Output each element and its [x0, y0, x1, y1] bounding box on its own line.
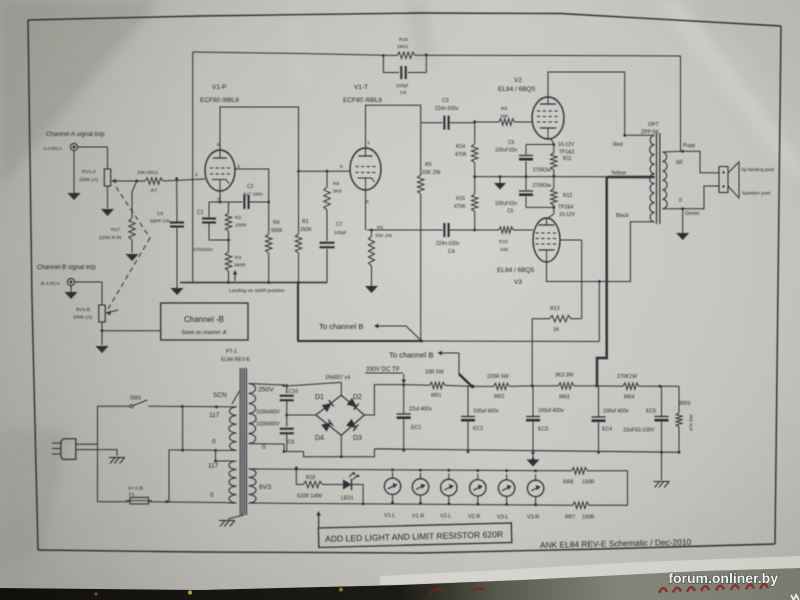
svg-text:EL84 / 6BQ5: EL84 / 6BQ5	[498, 86, 536, 93]
svg-text:PT-1: PT-1	[226, 349, 237, 355]
svg-text:R18: R18	[306, 475, 315, 481]
svg-text:0: 0	[679, 198, 682, 204]
svg-text:Yellow: Yellow	[611, 171, 626, 177]
svg-text:V2-L: V2-L	[440, 514, 451, 520]
svg-text:C2: C2	[247, 184, 254, 190]
svg-text:RR7: RR7	[565, 515, 575, 521]
svg-text:100R: 100R	[235, 223, 247, 229]
svg-text:6R: 6R	[676, 160, 683, 166]
svg-text:100pf: 100pf	[334, 230, 347, 236]
svg-text:C8: C8	[400, 90, 406, 96]
svg-text:C6: C6	[508, 140, 515, 146]
svg-text:117: 117	[209, 412, 220, 419]
svg-text:470K: 470K	[454, 204, 466, 210]
svg-text:0: 0	[210, 492, 214, 499]
svg-text:D3: D3	[353, 435, 362, 442]
svg-text:270R3w: 270R3w	[533, 183, 552, 189]
svg-text:560K: 560K	[271, 228, 283, 234]
svg-text:D1: D1	[315, 394, 324, 401]
svg-text:330V DC TP: 330V DC TP	[366, 367, 400, 373]
svg-text:EC2: EC2	[473, 426, 483, 432]
svg-text:224n 630v: 224n 630v	[436, 241, 460, 247]
svg-text:100uf 63v: 100uf 63v	[495, 201, 517, 207]
svg-text:V1-T: V1-T	[354, 84, 368, 91]
svg-text:100uf 400v: 100uf 400v	[538, 408, 564, 414]
svg-text:103N400V: 103N400V	[256, 410, 280, 416]
svg-text:Sp binding post: Sp binding post	[741, 167, 775, 173]
svg-text:To channel B: To channel B	[389, 351, 433, 360]
svg-text:270K1W: 270K1W	[617, 374, 637, 380]
svg-text:470K: 470K	[455, 152, 467, 158]
svg-text:B-J-RCA: B-J-RCA	[41, 281, 61, 287]
svg-text:2A S.B.: 2A S.B.	[128, 486, 144, 492]
svg-text:Channel-A signal in/p: Channel-A signal in/p	[46, 131, 105, 138]
svg-text:Red: Red	[613, 142, 623, 148]
svg-text:RR2: RR2	[494, 394, 504, 400]
svg-text:EC3: EC3	[538, 427, 548, 433]
svg-text:R13: R13	[550, 306, 560, 312]
svg-text:Landing on 100R position: Landing on 100R position	[229, 288, 285, 294]
svg-text:R15: R15	[456, 196, 465, 202]
svg-text:100R: 100R	[582, 515, 595, 521]
svg-text:224n 630v: 224n 630v	[435, 106, 459, 112]
svg-text:RR8: RR8	[563, 480, 573, 486]
svg-text:V3-L: V3-L	[497, 514, 508, 520]
svg-text:C5: C5	[507, 209, 514, 215]
svg-text:9: 9	[340, 164, 343, 170]
svg-text:EC1: EC1	[411, 425, 421, 431]
svg-text:R9: R9	[501, 106, 507, 112]
svg-text:RR1: RR1	[431, 393, 441, 399]
svg-text:V3: V3	[514, 279, 522, 286]
svg-text:8: 8	[366, 199, 369, 205]
svg-text:D4: D4	[315, 435, 324, 442]
svg-text:To channel B: To channel B	[319, 322, 363, 331]
svg-text:2: 2	[195, 172, 198, 178]
svg-text:Speaker post: Speaker post	[742, 191, 771, 197]
svg-text:R17: R17	[111, 227, 120, 233]
svg-text:Black: Black	[616, 213, 629, 219]
svg-text:Channel -B: Channel -B	[184, 315, 224, 324]
svg-text:R7: R7	[151, 188, 157, 194]
svg-text:V2-R: V2-R	[468, 514, 480, 520]
svg-text:220K R-IN: 220K R-IN	[99, 235, 122, 241]
svg-text:C9: C9	[288, 440, 295, 446]
svg-text:C9: C9	[157, 211, 163, 217]
svg-text:R16: R16	[399, 37, 408, 43]
svg-text:16K2: 16K2	[397, 44, 409, 50]
svg-text:390R: 390R	[234, 263, 246, 269]
svg-text:250V: 250V	[258, 387, 274, 394]
svg-text:OPT: OPT	[648, 122, 659, 128]
svg-text:TP1&3: TP1&3	[559, 150, 575, 156]
svg-text:270R3w: 270R3w	[533, 168, 552, 174]
svg-text:RRS: RRS	[680, 401, 691, 407]
svg-text:ECF80 /6BL8: ECF80 /6BL8	[200, 97, 239, 104]
svg-text:R11: R11	[563, 156, 572, 162]
svg-text:R1: R1	[302, 219, 309, 225]
svg-text:EC5: EC5	[646, 409, 656, 415]
svg-text:R8: R8	[333, 181, 339, 187]
svg-text:C4: C4	[448, 249, 455, 255]
svg-text:LED1: LED1	[341, 496, 354, 502]
svg-text:C1: C1	[197, 210, 204, 216]
svg-text:R2: R2	[235, 215, 241, 221]
svg-text:ECF80 /6BL8: ECF80 /6BL8	[343, 97, 382, 104]
svg-text:3K3 3W: 3K3 3W	[555, 373, 574, 379]
svg-text:V3-R: V3-R	[527, 515, 539, 521]
svg-text:R3: R3	[235, 255, 241, 261]
svg-text:100uf 400v: 100uf 400v	[603, 409, 629, 415]
svg-text:C7: C7	[336, 222, 343, 228]
svg-text:22uf 400v: 22uf 400v	[409, 407, 432, 413]
svg-text:5K8: 5K8	[333, 189, 342, 195]
svg-text:33K 2W: 33K 2W	[375, 233, 393, 239]
svg-text:620R 1/4W: 620R 1/4W	[297, 494, 322, 500]
svg-text:A-J-RCA: A-J-RCA	[43, 146, 63, 152]
svg-text:D2: D2	[353, 394, 362, 401]
svg-text:R4: R4	[273, 220, 280, 226]
svg-text:R5: R5	[425, 162, 432, 168]
svg-text:C10: C10	[289, 389, 299, 395]
svg-text:Pupp: Pupp	[683, 143, 695, 149]
svg-text:V1-P: V1-P	[212, 84, 226, 91]
svg-text:103N400V: 103N400V	[256, 422, 280, 428]
svg-text:10K×RG1: 10K×RG1	[137, 170, 159, 176]
svg-text:TP2&4: TP2&4	[558, 205, 574, 211]
svg-text:150K: 150K	[300, 227, 312, 233]
svg-text:SCN: SCN	[213, 392, 227, 399]
svg-text:RR4: RR4	[624, 395, 634, 401]
svg-text:10-12V: 10-12V	[558, 142, 575, 148]
svg-text:100R: 100R	[582, 480, 595, 486]
svg-text:V1-L: V1-L	[384, 513, 395, 519]
svg-text:Same as channel -A: Same as channel -A	[181, 330, 227, 336]
svg-text:220R 5W: 220R 5W	[487, 374, 509, 380]
svg-text:V2: V2	[514, 77, 522, 84]
svg-text:47K 5W: 47K 5W	[689, 414, 694, 431]
svg-text:F1: F1	[129, 492, 135, 498]
svg-text:RR3: RR3	[559, 395, 569, 401]
svg-text:forum.onliner.by: forum.onliner.by	[668, 570, 778, 586]
svg-text:100uf 63v: 100uf 63v	[495, 148, 517, 154]
svg-text:33K 2W: 33K 2W	[422, 170, 441, 176]
svg-text:V1-R: V1-R	[412, 513, 424, 519]
svg-text:RV1-B: RV1-B	[76, 307, 90, 313]
svg-text:470uf10v: 470uf10v	[193, 247, 213, 253]
svg-text:EC4: EC4	[602, 427, 612, 433]
svg-text:4u7 160v: 4u7 160v	[243, 192, 263, 198]
svg-text:68PF-CN: 68PF-CN	[150, 219, 171, 225]
svg-text:100pf: 100pf	[396, 83, 409, 89]
svg-text:Channel-B signal in/p: Channel-B signal in/p	[37, 264, 96, 271]
svg-text:1N4007 x4: 1N4007 x4	[325, 375, 350, 381]
svg-text:0: 0	[212, 439, 216, 446]
svg-text:R10: R10	[499, 239, 508, 245]
svg-text:Green: Green	[685, 211, 700, 217]
svg-text:R12: R12	[563, 193, 572, 199]
svg-text:10K: 10K	[500, 114, 509, 120]
svg-text:10K: 10K	[500, 247, 509, 253]
svg-text:6V3: 6V3	[259, 484, 271, 491]
svg-text:117: 117	[208, 463, 219, 470]
svg-text:RV1-A: RV1-A	[82, 169, 97, 175]
svg-text:EL84 REV-E: EL84 REV-E	[221, 357, 251, 363]
svg-text:SW1: SW1	[130, 396, 141, 402]
svg-text:100uf 400v: 100uf 400v	[473, 409, 499, 415]
svg-text:100K (A): 100K (A)	[79, 177, 98, 183]
svg-text:R14: R14	[456, 144, 465, 150]
svg-text:10-12V: 10-12V	[559, 212, 576, 218]
svg-text:0: 0	[262, 444, 266, 451]
svg-text:1: 1	[367, 140, 370, 146]
svg-text:10uF63-100V: 10uF63-100V	[623, 428, 655, 434]
svg-text:10R 5W: 10R 5W	[425, 370, 444, 376]
svg-text:EL84 / 6BQ5: EL84 / 6BQ5	[497, 267, 535, 274]
svg-text:100K (A): 100K (A)	[73, 315, 92, 321]
svg-text:C3: C3	[442, 98, 449, 104]
svg-text:1K: 1K	[553, 327, 560, 333]
